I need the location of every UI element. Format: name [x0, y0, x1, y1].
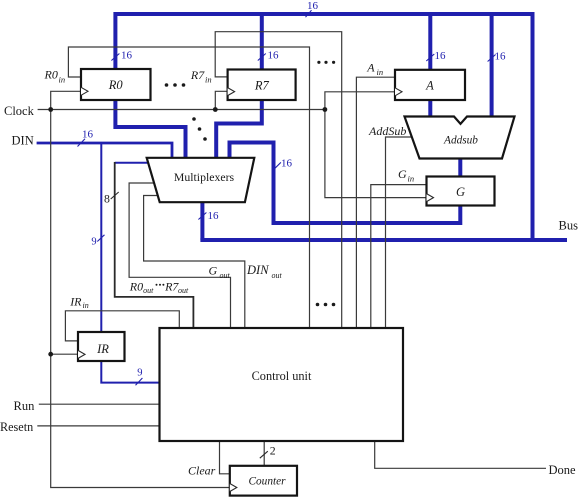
svg-text:16: 16	[281, 158, 293, 170]
svg-text:R7: R7	[254, 78, 270, 92]
svg-text:in: in	[59, 75, 66, 85]
svg-text:AddSub: AddSub	[368, 124, 406, 138]
wire Gout select	[129, 183, 230, 328]
wire bus drop into A	[428, 13, 432, 70]
svg-text:R7: R7	[190, 68, 205, 82]
svg-text:Clock: Clock	[4, 104, 35, 118]
svg-text:9: 9	[137, 368, 142, 379]
junction clock-IR	[48, 352, 53, 357]
bus width slash 9 DIN to IR	[91, 235, 104, 248]
wire bus top horizontal and right vertical (16-bit blue bus loop)	[115, 14, 532, 240]
svg-text:IR: IR	[96, 342, 109, 356]
wire R7in control loop	[215, 32, 342, 328]
control unit box	[160, 328, 404, 441]
register A	[395, 70, 465, 100]
counter box	[230, 466, 297, 496]
svg-text:16: 16	[121, 50, 133, 62]
wire R0in control loop	[68, 47, 309, 328]
junction clock-R7	[213, 107, 218, 112]
svg-text:R0: R0	[44, 68, 58, 82]
label IRin	[69, 295, 89, 310]
wire Resetn input	[37, 425, 159, 427]
label Gout	[209, 264, 231, 280]
bus width slash 9 IR to control	[136, 368, 143, 386]
bus width slash 16 R0 input	[111, 50, 132, 62]
wire clock branch to IR	[51, 353, 78, 355]
svg-text:DIN: DIN	[12, 134, 34, 148]
svg-text:Run: Run	[14, 399, 36, 413]
svg-text:Resetn: Resetn	[0, 420, 33, 434]
svg-text:Done: Done	[549, 463, 577, 477]
svg-text:IR: IR	[69, 295, 82, 309]
svg-text:out: out	[143, 286, 154, 295]
wire Clear to counter	[220, 441, 231, 474]
wire R7 output to multiplexer	[216, 100, 262, 158]
svg-text:in: in	[83, 301, 89, 310]
register G	[427, 177, 495, 206]
label R0in	[44, 68, 66, 85]
wire Run input	[39, 403, 160, 405]
junction clock-R0/down	[48, 107, 53, 112]
svg-text:Counter: Counter	[248, 475, 286, 487]
svg-text:16: 16	[82, 129, 94, 141]
junction clock-A/G	[323, 107, 328, 112]
svg-text:G: G	[456, 185, 465, 199]
wire IR output to control unit (9 bits)	[101, 361, 159, 383]
bus width slash 16 G to mux	[274, 158, 293, 170]
svg-text:in: in	[408, 174, 415, 184]
wire clock branch to R7	[215, 91, 227, 109]
label Ain	[366, 60, 383, 77]
svg-text:16: 16	[435, 50, 447, 62]
wire mux select bundle R0out-R7out (8) blue top segment	[115, 162, 149, 164]
wire Gin control	[371, 185, 427, 328]
register IR	[78, 332, 125, 361]
svg-text:16: 16	[495, 50, 507, 62]
bus width slash 16 R7 input	[258, 50, 279, 62]
wire Bus bottom horizontal	[200, 238, 567, 242]
svg-text:A: A	[425, 79, 434, 93]
register R0	[81, 69, 151, 100]
Addsub ALU trapezoid	[405, 117, 515, 159]
wire AddSub control	[386, 137, 412, 328]
svg-text:out: out	[272, 271, 283, 280]
svg-text:8: 8	[104, 192, 110, 206]
svg-text:in: in	[205, 75, 212, 85]
wire DINout select	[144, 196, 245, 329]
svg-text:G: G	[398, 167, 407, 181]
label Gin	[398, 167, 414, 184]
wire clock branch to A	[325, 92, 395, 110]
wire bus drop into Addsub right input	[490, 13, 494, 117]
svg-text:16: 16	[268, 50, 280, 62]
svg-text:2: 2	[270, 444, 276, 458]
svg-text:out: out	[178, 286, 189, 295]
wire G output loop to multiplexer input	[230, 143, 461, 224]
bus width slash 16 mux output	[198, 210, 219, 222]
wire Clock horizontal line	[38, 109, 325, 111]
wire clock branch to R0	[51, 91, 81, 109]
svg-text:9: 9	[91, 237, 96, 248]
svg-text:Addsub: Addsub	[443, 135, 478, 147]
bus width slash 8 select bundle	[104, 192, 119, 206]
wire mux select bundle R0out-R7out (8)	[115, 162, 194, 328]
dots diagonal above multiplexers	[192, 117, 207, 141]
svg-text:16: 16	[307, 0, 319, 12]
wire multiplexer output to Bus	[200, 202, 204, 240]
bus width slash 16 A input	[426, 50, 446, 62]
wire clock branch down to G	[325, 110, 427, 198]
svg-text:Multiplexers: Multiplexers	[174, 170, 235, 184]
svg-text:Bus: Bus	[559, 219, 579, 233]
svg-text:A: A	[366, 60, 375, 74]
bus width slash 2 counter	[260, 444, 276, 459]
svg-text:Clear: Clear	[188, 464, 216, 478]
svg-text:R0: R0	[129, 280, 143, 294]
dots above control unit	[316, 303, 336, 307]
svg-text:R0: R0	[108, 78, 124, 92]
svg-text:16: 16	[208, 210, 220, 222]
multiplexers trapezoid	[147, 158, 255, 202]
wire A output to Addsub	[428, 100, 432, 117]
wire Done output	[375, 441, 546, 468]
svg-text:in: in	[377, 67, 384, 77]
wire counter output to control unit (2)	[263, 441, 265, 466]
svg-text:Control unit: Control unit	[252, 369, 312, 383]
svg-text:out: out	[220, 271, 231, 280]
dots between R0 and R7	[165, 83, 186, 87]
register R7	[228, 70, 296, 101]
bus width slash 16 top bus	[306, 0, 319, 17]
label DINout	[246, 263, 283, 280]
wire DIN branch down to IR	[100, 143, 102, 332]
bus width slash 16 DIN	[78, 129, 94, 147]
wire IRin control loop	[65, 311, 179, 341]
wire bus drop into R7	[260, 13, 264, 70]
wire R0 output to multiplexer	[115, 100, 185, 158]
wire Addsub output to G	[458, 158, 462, 177]
bus width slash 16 Addsub right input	[488, 50, 506, 62]
wire Ain control	[356, 77, 395, 328]
svg-text:G: G	[209, 264, 218, 278]
label R7in	[190, 68, 212, 85]
wire DIN input to multiplexer	[37, 143, 172, 158]
svg-text:DIN: DIN	[246, 263, 269, 277]
label R0out-R7out	[129, 280, 189, 295]
wire clock vertical down to IR and Counter	[51, 110, 230, 488]
dots between R7in and Ain wires	[317, 61, 335, 64]
